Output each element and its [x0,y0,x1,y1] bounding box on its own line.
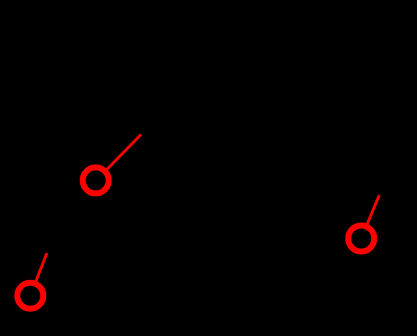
bond O3-C (red half) [367,195,379,225]
oxygen atom O1 [83,167,109,193]
bond O1-C (red half) [107,135,142,170]
oxygen atom O2 [17,283,43,309]
bond O2-C (red half) [36,253,47,282]
oxygen atom O3 [348,226,374,252]
